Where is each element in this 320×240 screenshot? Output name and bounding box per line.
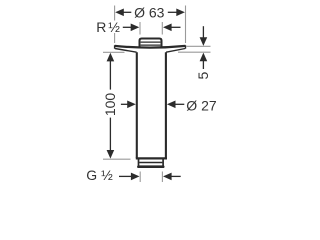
extension line right of G1/2 [161, 172, 163, 183]
collar thread line 1 [141, 41, 161, 43]
extension line bottom of 100 [103, 158, 131, 160]
dimension arrow Ø27 right [167, 101, 176, 109]
flange right rim [185, 45, 187, 48]
extension line top of 5 [187, 45, 211, 47]
extension line right of R1/2 [161, 22, 163, 35]
svg-text:G ½: G ½ [86, 167, 113, 183]
collar thread line 2 [141, 44, 161, 46]
dimension arrow 5 bottom [200, 53, 208, 62]
extension line left of G1/2 [139, 172, 141, 183]
dimension arrow 100 top [107, 53, 115, 62]
dimension arrow G1/2 left [119, 175, 132, 177]
flange top edge [115, 46, 186, 48]
dimension arrow 100 bottom [107, 150, 115, 159]
dimension arrow R1/2 right [163, 24, 172, 32]
pipe left wall [136, 52, 138, 158]
dimension arrow Ø63 left [115, 9, 124, 17]
thread groove line [139, 162, 162, 164]
thread bottom edge [138, 165, 163, 168]
extension line top of 100 [103, 51, 125, 53]
extension line bottom of 5 [178, 51, 211, 53]
collar (top thread boss) [140, 39, 162, 48]
dimension arrow Ø27 left [121, 103, 129, 105]
pipe right wall [165, 52, 167, 158]
svg-text:Ø 63: Ø 63 [134, 5, 165, 21]
flange underside right [166, 49, 185, 53]
extension line right of Ø63 [185, 6, 187, 44]
thread section right side [162, 159, 164, 166]
pipe bottom edge [136, 157, 167, 159]
dimension arrow 5 top [202, 26, 204, 38]
dimension arrow Ø63 right [176, 9, 185, 17]
svg-text:100: 100 [102, 93, 118, 117]
dimension line 100 upper segment [109, 61, 111, 90]
flange underside left [115, 49, 137, 53]
dimension arrow R1/2 left [123, 26, 132, 28]
svg-text:R ½: R ½ [96, 19, 120, 35]
dimension arrow G1/2 right [163, 173, 172, 181]
dimension line 100 lower segment [109, 118, 111, 151]
extension line left of R1/2 [139, 22, 141, 35]
svg-text:Ø 27: Ø 27 [186, 98, 217, 114]
flange left rim [114, 45, 116, 48]
extension line left of Ø63 [114, 6, 116, 21]
svg-text:5: 5 [195, 71, 211, 79]
thread section left side [138, 159, 140, 166]
